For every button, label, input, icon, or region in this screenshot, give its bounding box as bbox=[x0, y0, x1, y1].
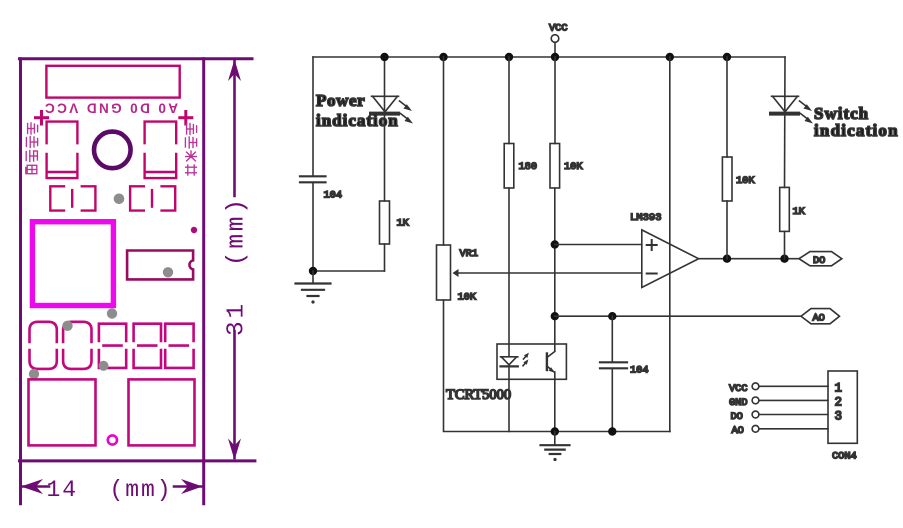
junction node bbox=[780, 255, 788, 263]
DO flag bbox=[799, 252, 842, 266]
dimension line 31mm bbox=[233, 61, 236, 458]
pin terminal GND bbox=[752, 397, 759, 404]
wire: switch LED branch bbox=[784, 57, 787, 187]
silkscreen text 开关指示 (vertical) bbox=[185, 124, 196, 176]
pin terminal DO bbox=[752, 411, 759, 418]
pin terminal VCC bbox=[752, 383, 759, 390]
LED footprint left bbox=[47, 122, 78, 179]
wire emitter to ground rail bbox=[554, 372, 556, 432]
svg-text:AO: AO bbox=[732, 425, 744, 437]
wire VR1 bottom to bottom rail bbox=[444, 300, 671, 432]
TCRT5000 box bbox=[497, 344, 566, 379]
junction node cap bbox=[608, 312, 616, 320]
wire to non-inverting input bbox=[555, 244, 642, 246]
plus sign left bbox=[36, 112, 48, 125]
svg-text:1K: 1K bbox=[397, 218, 410, 230]
svg-text:Power: Power bbox=[316, 91, 365, 110]
svg-text:AO: AO bbox=[813, 313, 825, 325]
big pad square bbox=[32, 222, 113, 306]
pad shape square 1 bbox=[99, 324, 126, 368]
via dot bbox=[99, 361, 109, 371]
wire 10K to +input node and AO node bbox=[554, 188, 556, 351]
wire: LM393 power line bbox=[669, 57, 671, 432]
connector body bbox=[828, 371, 857, 443]
via dot bbox=[163, 267, 173, 277]
capacitor C 104 (left) bbox=[300, 176, 326, 182]
wire: power LED branch bbox=[384, 57, 386, 201]
wire: 10K branch bbox=[554, 57, 556, 144]
junction node + input bbox=[551, 240, 559, 248]
junction node bbox=[608, 427, 616, 435]
resistor 1K (switch LED) bbox=[780, 187, 790, 231]
svg-text:GND: GND bbox=[729, 397, 748, 409]
ground (main) bbox=[541, 432, 570, 462]
resistor 10K (divider) bbox=[550, 144, 560, 189]
dimension 14mm right arrow bbox=[181, 479, 203, 494]
pad shape square 2 bbox=[134, 324, 161, 368]
dimension arrow down bbox=[228, 439, 241, 461]
silkscreen text 电源指示 (vertical) bbox=[26, 123, 38, 174]
sensor hole circle bbox=[94, 132, 131, 169]
svg-text:10K: 10K bbox=[564, 161, 583, 173]
wire: VCC top rail bbox=[313, 56, 785, 58]
junction node bbox=[723, 53, 731, 61]
wire to ground node bbox=[313, 270, 385, 272]
TCRT LED bbox=[501, 357, 518, 367]
wire: left branch down to C1 bbox=[312, 57, 314, 175]
pad shape round 2 bbox=[63, 322, 91, 369]
header connector footprint bbox=[46, 66, 179, 98]
junction node ground bbox=[551, 427, 559, 435]
resistor footprint right bbox=[130, 186, 175, 210]
via dot bbox=[114, 194, 125, 205]
via dot bbox=[107, 308, 117, 318]
svg-text:3: 3 bbox=[835, 410, 843, 424]
resistor 1K (power LED) bbox=[380, 201, 390, 244]
sensor pad square left bbox=[29, 379, 96, 445]
svg-text:180: 180 bbox=[519, 161, 538, 173]
svg-text:1K: 1K bbox=[793, 206, 806, 218]
junction node bbox=[380, 53, 388, 61]
via dot bbox=[62, 321, 72, 331]
IC chip footprint with notch bbox=[127, 251, 193, 280]
junction node bbox=[309, 267, 317, 275]
VCC terminal bbox=[551, 35, 559, 43]
svg-text:VR1: VR1 bbox=[460, 248, 479, 260]
plus input mark bbox=[647, 240, 657, 250]
TCRT emission arrows bbox=[523, 353, 529, 366]
resistor 10K (pullup) bbox=[722, 157, 732, 201]
junction node bbox=[666, 53, 674, 61]
ground bbox=[296, 271, 331, 304]
dimension 14mm left arrow bbox=[21, 479, 43, 494]
LED switch indication bbox=[771, 96, 813, 123]
wire AO line bbox=[555, 315, 801, 317]
small magenta dot bbox=[191, 227, 197, 233]
wire R180 to TCRT LED bbox=[508, 188, 510, 356]
LED power indication bbox=[371, 96, 413, 123]
junction node AO bbox=[551, 312, 559, 320]
svg-text:DO: DO bbox=[813, 255, 825, 267]
minus input mark bbox=[647, 273, 657, 275]
svg-text:CON4: CON4 bbox=[832, 451, 857, 463]
svg-text:14 (mm): 14 (mm) bbox=[47, 477, 171, 503]
potentiometer VR1 10K bbox=[437, 245, 451, 300]
svg-text:LM393: LM393 bbox=[630, 212, 662, 224]
svg-text:indication: indication bbox=[316, 111, 399, 130]
svg-text:104: 104 bbox=[324, 190, 343, 202]
junction node bbox=[505, 53, 513, 61]
resistor 180 bbox=[504, 144, 514, 189]
wire R bottom bbox=[384, 244, 386, 271]
plus sign right bbox=[180, 112, 192, 125]
junction node bbox=[551, 53, 559, 61]
pin terminal AO bbox=[752, 425, 759, 432]
resistor footprint left bbox=[50, 186, 95, 210]
wire: pullup branch bbox=[726, 57, 728, 157]
svg-text:10K: 10K bbox=[736, 175, 755, 187]
LED footprint right bbox=[145, 122, 177, 179]
AO flag bbox=[801, 309, 840, 324]
pad shape round 1 bbox=[30, 322, 57, 369]
dimension arrow up bbox=[228, 60, 241, 82]
PCB board outline bbox=[20, 59, 255, 504]
svg-text:VCC: VCC bbox=[549, 23, 568, 35]
junction node bbox=[439, 53, 447, 61]
junction node bbox=[723, 255, 731, 263]
wire TCRT LED to bottom rail bbox=[508, 367, 510, 432]
TCRT phototransistor bbox=[547, 352, 555, 373]
connector CON4 bbox=[752, 371, 857, 443]
via dot bbox=[29, 369, 39, 379]
svg-text:indication: indication bbox=[814, 121, 899, 140]
sensor pad square right bbox=[129, 379, 195, 445]
small hole circle bbox=[108, 435, 117, 444]
svg-text:TCRT5000: TCRT5000 bbox=[446, 387, 511, 403]
svg-text:104: 104 bbox=[630, 365, 649, 377]
op-amp LM393 bbox=[642, 230, 699, 288]
capacitor C 104 (right) bbox=[611, 316, 613, 361]
svg-text:10K: 10K bbox=[458, 292, 477, 304]
svg-text:DO: DO bbox=[731, 411, 743, 423]
wire: DO output bbox=[699, 258, 799, 260]
wire: R180 branch bbox=[508, 57, 510, 144]
wire below C1 bbox=[312, 183, 314, 271]
pad shape square 3 bbox=[165, 324, 193, 368]
svg-text:VCC: VCC bbox=[729, 383, 748, 395]
svg-text:2: 2 bbox=[835, 396, 843, 410]
svg-text:1: 1 bbox=[835, 382, 843, 396]
wire VR1 wiper to inverting input bbox=[458, 272, 642, 274]
wire: VR1 branch bbox=[443, 57, 445, 245]
